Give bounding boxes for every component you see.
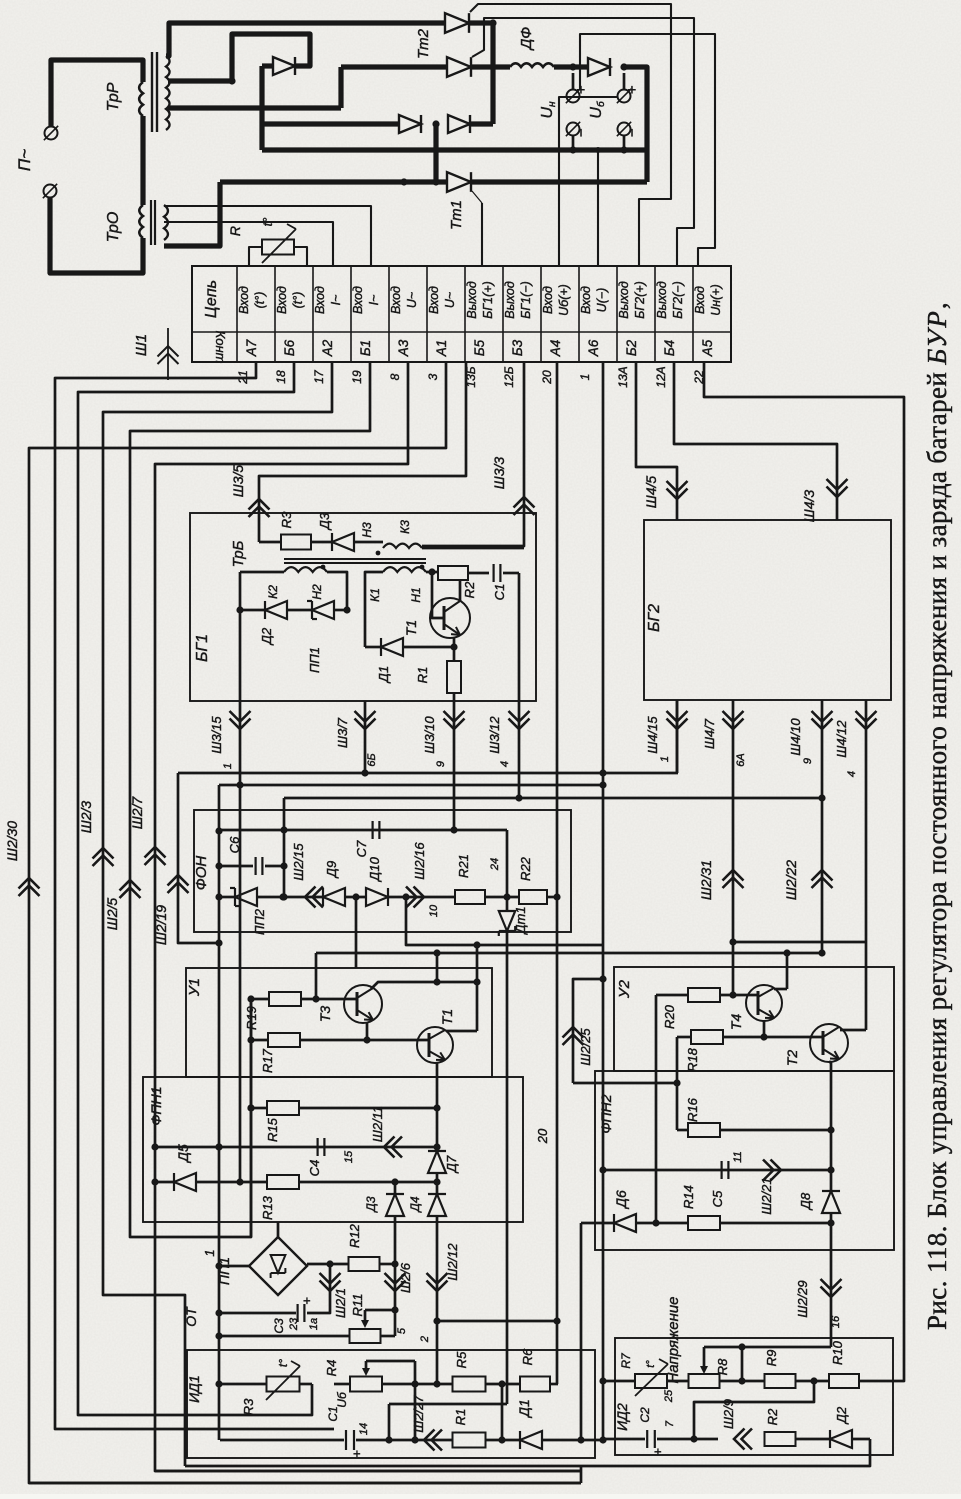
- svg-text:R11: R11: [350, 1294, 365, 1317]
- svg-text:Ш3/15: Ш3/15: [209, 716, 224, 754]
- marker Sh2/9: [734, 1429, 745, 1450]
- table column Б5: [502, 266, 504, 362]
- svg-text:6А: 6А: [735, 753, 747, 766]
- svg-text:ФПН2: ФПН2: [598, 1094, 614, 1133]
- svg-text:1: 1: [578, 374, 592, 381]
- block FPN1 box: [143, 1077, 523, 1222]
- svg-text:Вход: Вход: [237, 286, 251, 314]
- terminal X1 of mains: [45, 127, 58, 140]
- svg-text:R1: R1: [453, 1409, 468, 1426]
- svg-text:А7: А7: [244, 339, 259, 357]
- winding K1-N1: [383, 567, 426, 572]
- svg-text:Вход: Вход: [275, 286, 289, 314]
- svg-text:R1: R1: [415, 667, 430, 684]
- svg-text:Д7: Д7: [444, 1155, 459, 1174]
- wire x677 drop: [676, 1037, 679, 1130]
- svg-text:Ш4/12: Ш4/12: [834, 720, 849, 758]
- table column А7: [274, 266, 276, 362]
- wire mains loop top: [51, 60, 143, 126]
- svg-text:+: +: [299, 1297, 314, 1305]
- svg-text:ФПН1: ФПН1: [148, 1086, 164, 1125]
- wire T2 emitter chain x831: [829, 1061, 831, 1064]
- svg-text:t°: t°: [260, 218, 275, 227]
- svg-text:19: 19: [350, 370, 364, 384]
- svg-text:С4: С4: [307, 1160, 322, 1177]
- block U2 box: [614, 967, 894, 1071]
- wire x436 link: [433, 124, 438, 182]
- wire R8 wiper: [703, 1347, 706, 1369]
- transformer TrB core: [284, 558, 426, 560]
- svg-text:Ш4/15: Ш4/15: [645, 716, 660, 754]
- wire R5 junction down: [501, 1384, 504, 1440]
- diode D7: [428, 1151, 446, 1173]
- svg-text:Выход: Выход: [617, 281, 631, 319]
- wire x437 bus stub: [436, 953, 439, 982]
- node row3: [432, 120, 439, 127]
- resistor R15: [267, 1101, 299, 1115]
- wire Tt1 gate to connector B5: [481, 203, 483, 266]
- svg-text:Д5: Д5: [175, 1144, 191, 1164]
- svg-text:Т4: Т4: [728, 1014, 744, 1031]
- diode D8: [822, 1191, 840, 1213]
- diode D3: [332, 533, 354, 551]
- svg-text:20: 20: [535, 1128, 550, 1144]
- svg-text:А1: А1: [434, 340, 449, 358]
- svg-text:Ш3/5: Ш3/5: [230, 465, 246, 498]
- svg-text:R6: R6: [520, 1348, 535, 1365]
- table column А2: [350, 266, 352, 362]
- wire x240 down BG1: [239, 572, 242, 701]
- svg-text:R: R: [227, 226, 243, 236]
- diode output: [588, 58, 610, 76]
- resistor R9: [765, 1374, 796, 1388]
- svg-text:Т1: Т1: [403, 620, 419, 636]
- wire Sh2/19 drop x178: [178, 773, 219, 943]
- wire R4 wiper: [365, 1361, 368, 1370]
- thermistor R7: [635, 1374, 667, 1388]
- svg-text:БГ2: БГ2: [646, 604, 663, 632]
- svg-text:(t°): (t°): [291, 292, 305, 309]
- wire TrR mid tap: [168, 78, 232, 83]
- wire 8 from A3: [155, 362, 581, 1471]
- diode D10: [366, 888, 388, 906]
- svg-text:18: 18: [274, 370, 288, 384]
- svg-text:Д1: Д1: [516, 1399, 532, 1419]
- svg-text:Б2: Б2: [624, 339, 639, 356]
- wire corner x341 up: [338, 67, 343, 108]
- svg-text:Ш4/7: Ш4/7: [702, 718, 717, 749]
- svg-text:Д6: Д6: [613, 1190, 629, 1210]
- svg-text:+: +: [650, 1448, 665, 1456]
- svg-text:БГ1: БГ1: [194, 634, 211, 662]
- svg-text:Д4: Д4: [408, 1196, 422, 1213]
- diode rect row3 a: [399, 115, 421, 133]
- svg-text:9: 9: [802, 758, 814, 764]
- table column Б1: [388, 266, 390, 362]
- diode D6: [581, 1222, 614, 1225]
- svg-text:Б6: Б6: [282, 339, 297, 356]
- wire A5 to Un plus: [580, 34, 715, 266]
- svg-text:Uб(+): Uб(+): [557, 284, 571, 316]
- block FPN2 box: [595, 1071, 894, 1250]
- wire D3 to winding: [354, 541, 383, 544]
- diode D1 BG1: [365, 646, 381, 649]
- svg-text:А5: А5: [700, 339, 715, 357]
- resistor R2 BG1: [438, 566, 468, 580]
- svg-text:С1: С1: [326, 1406, 340, 1421]
- svg-text:У2: У2: [616, 979, 633, 999]
- resistor R18: [691, 1030, 723, 1044]
- svg-text:U(−): U(−): [595, 288, 609, 313]
- svg-text:+: +: [573, 85, 590, 94]
- svg-text:R2: R2: [462, 581, 477, 598]
- wire x219 main rail: [218, 785, 221, 1440]
- svg-text:Ш3/7: Ш3/7: [335, 717, 350, 748]
- svg-text:R9: R9: [764, 1350, 779, 1367]
- svg-text:1: 1: [202, 1249, 217, 1256]
- svg-text:С3: С3: [272, 1318, 286, 1334]
- svg-text:Д3: Д3: [317, 512, 332, 531]
- block ID2 box: [615, 1338, 893, 1455]
- wire R11 wiper: [365, 1309, 395, 1312]
- svg-text:Ш2/31: Ш2/31: [698, 860, 714, 900]
- svg-text:8: 8: [388, 373, 402, 380]
- wire line y773: [178, 772, 678, 775]
- wire C5 line y1170: [603, 1169, 831, 1172]
- svg-text:R5: R5: [454, 1351, 469, 1368]
- svg-text:R18: R18: [685, 1047, 700, 1072]
- transistor T1 U1: [417, 1027, 453, 1063]
- resistor R12: [349, 1257, 380, 1271]
- wire thermistor to B6: [294, 247, 307, 266]
- node junction top right: [489, 19, 496, 26]
- svg-text:16: 16: [830, 1315, 842, 1328]
- svg-text:25: 25: [663, 1389, 675, 1403]
- svg-text:Б1: Б1: [358, 340, 373, 356]
- wire thermistor to A7: [249, 247, 262, 266]
- svg-text:Конт: Конт: [213, 331, 228, 364]
- wire thick bottom y1440: [220, 1439, 344, 1442]
- wire 12B from B3 to Sh3/3: [422, 362, 524, 546]
- svg-text:R3: R3: [279, 511, 294, 528]
- svg-text:Ш2/1: Ш2/1: [333, 1288, 348, 1318]
- svg-text:R22: R22: [518, 856, 533, 881]
- marker Sh2/11: [384, 1137, 395, 1158]
- wire bottom rail y1483: [29, 1482, 581, 1485]
- svg-text:Ш2/9: Ш2/9: [721, 1399, 736, 1429]
- wire Ub node line y1404: [389, 1403, 507, 1406]
- diode D2: [240, 609, 265, 612]
- block U1 box: [186, 968, 492, 1077]
- svg-text:Ш3/3: Ш3/3: [491, 457, 507, 490]
- capacitor C4: [317, 1138, 319, 1156]
- wire 19 from B1: [130, 362, 370, 1237]
- block BG2 box: [644, 520, 891, 700]
- node mid tap: [228, 77, 235, 84]
- svg-text:Вход: Вход: [541, 286, 555, 314]
- resistor R1 BG1: [447, 661, 461, 693]
- svg-text:Б5: Б5: [472, 339, 487, 356]
- svg-text:12А: 12А: [654, 366, 668, 387]
- diode D3 FPN1: [394, 1182, 397, 1194]
- svg-text:R16: R16: [685, 1097, 700, 1122]
- node y182 a: [400, 178, 407, 185]
- wire R3 to D3: [311, 541, 332, 544]
- marker Sh2/29: [821, 1287, 842, 1298]
- svg-text:R17: R17: [260, 1048, 275, 1073]
- svg-text:А2: А2: [320, 339, 335, 357]
- svg-text:+: +: [349, 1450, 364, 1458]
- resistor R16: [688, 1123, 720, 1137]
- svg-text:Д2: Д2: [834, 1406, 849, 1425]
- resistor R10: [829, 1374, 859, 1388]
- svg-text:Д10: Д10: [367, 856, 382, 882]
- svg-text:Ш4/10: Ш4/10: [788, 718, 803, 756]
- svg-text:Напряжение: Напряжение: [665, 1296, 682, 1383]
- wire Tt1 cathode to right edge: [470, 179, 647, 184]
- svg-text:С1: С1: [492, 584, 507, 601]
- svg-text:Вход: Вход: [389, 286, 403, 314]
- resistor R8 with wiper: [689, 1374, 720, 1388]
- wire N2 right down: [327, 572, 347, 610]
- svg-text:U~: U~: [443, 292, 457, 308]
- svg-text:ОТ: ОТ: [183, 1306, 199, 1327]
- diode D2 ID2: [830, 1430, 852, 1448]
- svg-text:С2: С2: [638, 1407, 652, 1423]
- resistor R1 ID1: [453, 1433, 486, 1448]
- capacitor C1 ID1: [345, 1430, 347, 1450]
- svg-text:10: 10: [428, 904, 440, 917]
- wire A4 to Ub plus: [559, 97, 617, 266]
- svg-text:Uб: Uб: [335, 1391, 349, 1408]
- wire T2 collector: [840, 1029, 866, 1032]
- table column Б4: [692, 266, 694, 362]
- wire collector bus y953: [316, 952, 822, 955]
- svg-text:Вход: Вход: [351, 286, 365, 314]
- svg-text:Вход: Вход: [579, 286, 593, 314]
- transformer TrR secondary winding: [166, 56, 170, 130]
- winding N3-K3 of TrB: [376, 551, 381, 556]
- zener Dt1: [506, 897, 509, 912]
- resistor R13: [267, 1175, 299, 1189]
- inductor DF filter choke: [510, 63, 554, 67]
- wire choke to node Un: [554, 64, 588, 69]
- wire thyristor row y182: [220, 179, 448, 184]
- wire T1 emitter to R1: [453, 637, 456, 661]
- node Ub plus: [620, 63, 627, 70]
- svg-text:Ш2/25: Ш2/25: [578, 1028, 593, 1066]
- table column А4: [578, 266, 580, 362]
- wire Tt2b gate: [472, 18, 694, 266]
- marker Sh2/6: [385, 1281, 406, 1292]
- svg-text:1а: 1а: [308, 1318, 320, 1330]
- svg-text:К3: К3: [398, 520, 412, 534]
- svg-text:Выход: Выход: [655, 281, 669, 319]
- wire OT line: [219, 1312, 296, 1315]
- wire C1 down to Sh3/12: [518, 573, 521, 798]
- svg-text:П~: П~: [15, 149, 34, 171]
- capacitor C1 BG1: [493, 564, 495, 582]
- svg-text:24: 24: [489, 858, 501, 871]
- transformer TrO primary winding: [139, 205, 143, 238]
- resistor R11 with wiper: [350, 1329, 381, 1343]
- svg-text:R21: R21: [456, 854, 471, 878]
- svg-text:Вход: Вход: [693, 286, 707, 314]
- svg-text:Ш4/3: Ш4/3: [801, 490, 817, 523]
- svg-text:I~: I~: [367, 295, 381, 306]
- svg-text:1: 1: [659, 756, 671, 762]
- wire PP1 left to rail: [219, 1265, 249, 1268]
- svg-text:БГ2(+): БГ2(+): [633, 281, 647, 319]
- wire x284 drop: [283, 798, 286, 897]
- svg-text:U~: U~: [405, 292, 419, 308]
- svg-text:Ш2/7: Ш2/7: [129, 796, 145, 830]
- svg-text:А6: А6: [586, 339, 601, 357]
- svg-text:7: 7: [664, 1420, 676, 1427]
- wire 13B from B5 to Sh3/5: [259, 362, 466, 542]
- svg-text:−: −: [573, 128, 590, 137]
- capacitor C2: [603, 1438, 645, 1441]
- svg-text:4: 4: [846, 771, 858, 777]
- svg-text:Дт1: Дт1: [513, 906, 528, 935]
- resistor R6: [520, 1377, 550, 1392]
- svg-text:t°: t°: [276, 1359, 290, 1367]
- svg-text:ПП1: ПП1: [307, 647, 322, 673]
- svg-text:2: 2: [419, 1336, 431, 1343]
- resistor R4 with wiper: [350, 1377, 382, 1392]
- wire 3 from A1: [29, 362, 581, 1483]
- wire left leg x220 to TrO: [164, 182, 220, 246]
- terminal Un minus: [567, 123, 580, 136]
- wire D2 return loop: [185, 1439, 870, 1466]
- wire Sh2/25 branch: [573, 979, 603, 1083]
- svg-text:ДФ: ДФ: [518, 27, 535, 52]
- svg-text:R8: R8: [715, 1358, 730, 1375]
- svg-text:Ш1: Ш1: [133, 334, 150, 356]
- wire T4 emitter: [763, 1021, 766, 1037]
- svg-text:Ш2/19: Ш2/19: [153, 905, 169, 945]
- svg-text:Ш2/27: Ш2/27: [411, 1395, 426, 1433]
- svg-text:Т2: Т2: [784, 1050, 800, 1067]
- wire vertical x493: [490, 23, 495, 124]
- wire x581 tie: [580, 1466, 583, 1483]
- wire TrR secondary top tap to Tt2a: [166, 23, 446, 56]
- wire emitter to R8 wiper: [704, 1346, 831, 1349]
- wire line y942: [733, 941, 866, 944]
- svg-text:Uн(+): Uн(+): [709, 284, 723, 316]
- svg-text:БГ2(−): БГ2(−): [671, 281, 685, 319]
- wire mains loop bottom: [50, 198, 143, 273]
- thermistor R external: [262, 240, 294, 255]
- svg-text:БГ1(+): БГ1(+): [481, 281, 495, 319]
- svg-text:20: 20: [540, 370, 554, 385]
- wire D10 branch down: [406, 897, 603, 945]
- thyristor Tt2 upper: [445, 13, 469, 33]
- wire rectifier row y124: [262, 121, 399, 126]
- marker Sh2/12: [427, 1281, 448, 1292]
- svg-text:Ш2/3: Ш2/3: [78, 801, 94, 834]
- svg-text:Ш2/16: Ш2/16: [412, 842, 427, 880]
- wire line y798: [284, 797, 822, 800]
- svg-text:t°: t°: [645, 1360, 657, 1368]
- svg-text:Д9: Д9: [324, 861, 339, 879]
- svg-text:ПП2: ПП2: [252, 908, 267, 935]
- capacitor C3: [297, 1304, 299, 1322]
- marker Sh2/27: [424, 1430, 435, 1451]
- svg-text:Ш2/29: Ш2/29: [795, 1280, 810, 1317]
- resistor R19: [269, 992, 301, 1006]
- svg-text:R13: R13: [260, 1195, 275, 1220]
- wire TrR primary to TrO primary: [140, 116, 145, 205]
- svg-text:Ш2/30: Ш2/30: [4, 821, 20, 861]
- wire K1 left down to D1: [365, 572, 383, 647]
- diode D4: [436, 1173, 439, 1194]
- svg-text:13А: 13А: [616, 366, 630, 387]
- wire minus bus y150: [262, 147, 647, 152]
- wire winding K2 left to x240: [240, 571, 284, 574]
- wire x240 lower part: [239, 785, 242, 1182]
- wire 21 from A7: [55, 362, 334, 1429]
- svg-text:К2: К2: [266, 585, 280, 599]
- svg-text:ТрБ: ТрБ: [230, 540, 247, 567]
- table column А5: [730, 266, 732, 362]
- svg-text:R7: R7: [619, 1352, 633, 1369]
- svg-text:Рис. 118. Блок управления регу: Рис. 118. Блок управления регулятора пос…: [922, 302, 952, 1330]
- svg-text:R4: R4: [324, 1360, 339, 1377]
- svg-text:Д1: Д1: [376, 666, 391, 684]
- svg-text:23: 23: [288, 1317, 300, 1331]
- wire C7 right down: [506, 830, 509, 897]
- svg-text:R2: R2: [765, 1408, 780, 1425]
- svg-text:ИД1: ИД1: [186, 1375, 202, 1403]
- wire 12A from B4 to Sh4/3: [674, 362, 837, 520]
- svg-text:Д3: Д3: [364, 1196, 378, 1213]
- svg-text:Выход: Выход: [503, 281, 517, 319]
- wire 1 bus from A6: [602, 362, 605, 1438]
- svg-text:Ш2/5: Ш2/5: [104, 898, 120, 931]
- wire 22 from A5: [704, 362, 904, 1381]
- svg-text:12Б: 12Б: [502, 366, 516, 387]
- svg-text:У1: У1: [186, 978, 203, 997]
- transistor T3: [344, 985, 382, 1023]
- transistor T1 BG1: [430, 598, 470, 638]
- diode rect row3 b: [448, 115, 470, 133]
- wire line y785: [219, 784, 603, 787]
- wire C7 top line: [219, 829, 507, 832]
- svg-text:−: −: [624, 128, 641, 137]
- node y182 b: [432, 178, 439, 185]
- svg-text:Вход: Вход: [313, 286, 327, 314]
- wire TrO secondary taps to table: [164, 206, 371, 266]
- svg-text:Д2: Д2: [259, 627, 274, 646]
- resistor R17: [268, 1033, 300, 1047]
- wire T1 emitter chain x437: [436, 1062, 439, 1151]
- rectifier bridge PP1: [249, 1237, 307, 1295]
- svg-text:Н3: Н3: [360, 522, 374, 538]
- wire Sh2/1 drop: [307, 1264, 330, 1313]
- wire N1 to R2: [426, 571, 438, 574]
- wire 20 bus from A4: [556, 362, 559, 1384]
- svg-text:Д8: Д8: [798, 1192, 813, 1211]
- label Sh3/7 arrow wire: [364, 701, 367, 773]
- block ID1 box: [187, 1350, 595, 1458]
- wire Sh2/12 to bus20 y1321: [437, 1320, 557, 1323]
- wire output diode to right edge: [624, 67, 647, 182]
- svg-text:11: 11: [732, 1151, 744, 1162]
- wire D6 anode drop x581: [580, 1223, 583, 1440]
- svg-text:Ш2/6: Ш2/6: [398, 1262, 413, 1293]
- svg-text:Б3: Б3: [510, 339, 525, 356]
